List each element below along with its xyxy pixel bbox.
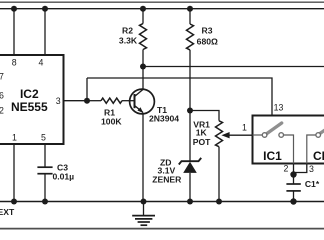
svg-text:C1*: C1*	[305, 179, 320, 189]
wire pin 8 to V+ rail	[13, 9, 15, 55]
capacitor C3	[37, 167, 52, 174]
wire pin 1 to ground rail	[13, 144, 15, 202]
zener diode ZD	[179, 158, 201, 173]
svg-text:IC1: IC1	[263, 149, 282, 163]
svg-text:2: 2	[0, 106, 4, 116]
svg-text:4: 4	[39, 58, 44, 68]
svg-text:POT: POT	[193, 137, 211, 147]
V+ supply rail	[0, 8, 324, 10]
wire S1 to pin 2	[284, 135, 294, 164]
svg-text:680Ω: 680Ω	[197, 36, 218, 46]
wire pin 3 to node D	[294, 164, 307, 173]
svg-text:100K: 100K	[101, 116, 122, 126]
wire node A up	[86, 78, 88, 101]
svg-text:NE555: NE555	[11, 100, 48, 114]
svg-text:5: 5	[41, 132, 46, 142]
wire node A to R1	[87, 100, 101, 102]
junction C3 ground	[42, 199, 48, 205]
svg-text:3.3K: 3.3K	[119, 36, 138, 46]
svg-text:7: 7	[0, 72, 4, 82]
wire C1 to ground rail	[293, 191, 295, 202]
analog switch S1	[253, 123, 284, 137]
resistor R3	[187, 24, 194, 50]
svg-text:8: 8	[12, 58, 17, 68]
svg-text:EXT: EXT	[0, 207, 15, 217]
ground	[132, 202, 155, 226]
wire V+ rail to R3	[189, 9, 191, 24]
svg-text:2: 2	[284, 163, 289, 173]
junction emitter ground	[141, 199, 147, 205]
transistor T1	[130, 89, 155, 114]
junction pin 4 rail	[42, 6, 48, 12]
potentiometer VR1	[216, 121, 253, 147]
svg-text:1: 1	[12, 132, 17, 142]
wire pin 2 to node D	[293, 164, 295, 175]
svg-text:0.01µ: 0.01µ	[52, 172, 74, 182]
capacitor C1	[286, 184, 300, 191]
wire pin 4 to V+ rail	[44, 9, 46, 55]
wire S2 to pin 3	[307, 135, 316, 164]
ground rail	[0, 201, 324, 203]
junction C1 ground	[290, 198, 296, 204]
wire T1 emitter to ground rail	[142, 113, 144, 202]
wire pin 3 to node A	[64, 100, 88, 102]
IC1 CD4066 box	[253, 116, 324, 164]
wire R3 to node C	[189, 50, 191, 111]
resistor R2	[140, 24, 147, 50]
junction R3 rail	[187, 6, 193, 12]
junction R2 rail	[140, 6, 146, 12]
IC2 NE555 box	[0, 55, 64, 144]
wire node C to ZD	[189, 111, 191, 162]
wire node B to right edge	[143, 66, 324, 68]
resistor R1	[101, 98, 122, 103]
svg-text:ZENER: ZENER	[152, 175, 182, 185]
wire ZD to ground rail	[189, 173, 191, 202]
node A junction	[84, 98, 90, 104]
svg-text:1: 1	[242, 122, 247, 132]
svg-text:R3: R3	[202, 26, 213, 36]
svg-text:6: 6	[0, 91, 4, 101]
junction pin 8 rail	[11, 6, 17, 12]
wire R1 to T1 base	[122, 100, 135, 102]
junction pin 1 ground	[11, 199, 17, 205]
svg-text:13: 13	[274, 102, 284, 112]
svg-text:2N3904: 2N3904	[149, 114, 179, 124]
wire node B to R2	[142, 50, 144, 67]
wire node D to C1	[293, 175, 295, 185]
analog switch S2	[316, 126, 324, 137]
svg-text:3: 3	[56, 96, 61, 106]
svg-text:3: 3	[309, 164, 314, 174]
svg-text:IC2: IC2	[20, 87, 39, 101]
node C junction	[187, 108, 193, 114]
junction VR1 ground	[216, 199, 222, 205]
wire R2 to V+ rail	[142, 9, 144, 24]
svg-text:CD4066: CD4066	[313, 149, 324, 163]
wire pin 5 to C3	[44, 144, 46, 167]
wire C3 to ground rail	[44, 174, 46, 202]
wire node C to VR1 top	[190, 111, 219, 121]
svg-text:R2: R2	[122, 25, 133, 35]
junction ZD ground	[187, 199, 193, 205]
node B junction	[140, 64, 146, 70]
wire VR1 to ground rail	[218, 147, 220, 202]
wire T1 collector to node B	[142, 67, 144, 90]
wire node A to IC1 pin 13	[87, 78, 272, 116]
node D junction	[290, 171, 296, 177]
